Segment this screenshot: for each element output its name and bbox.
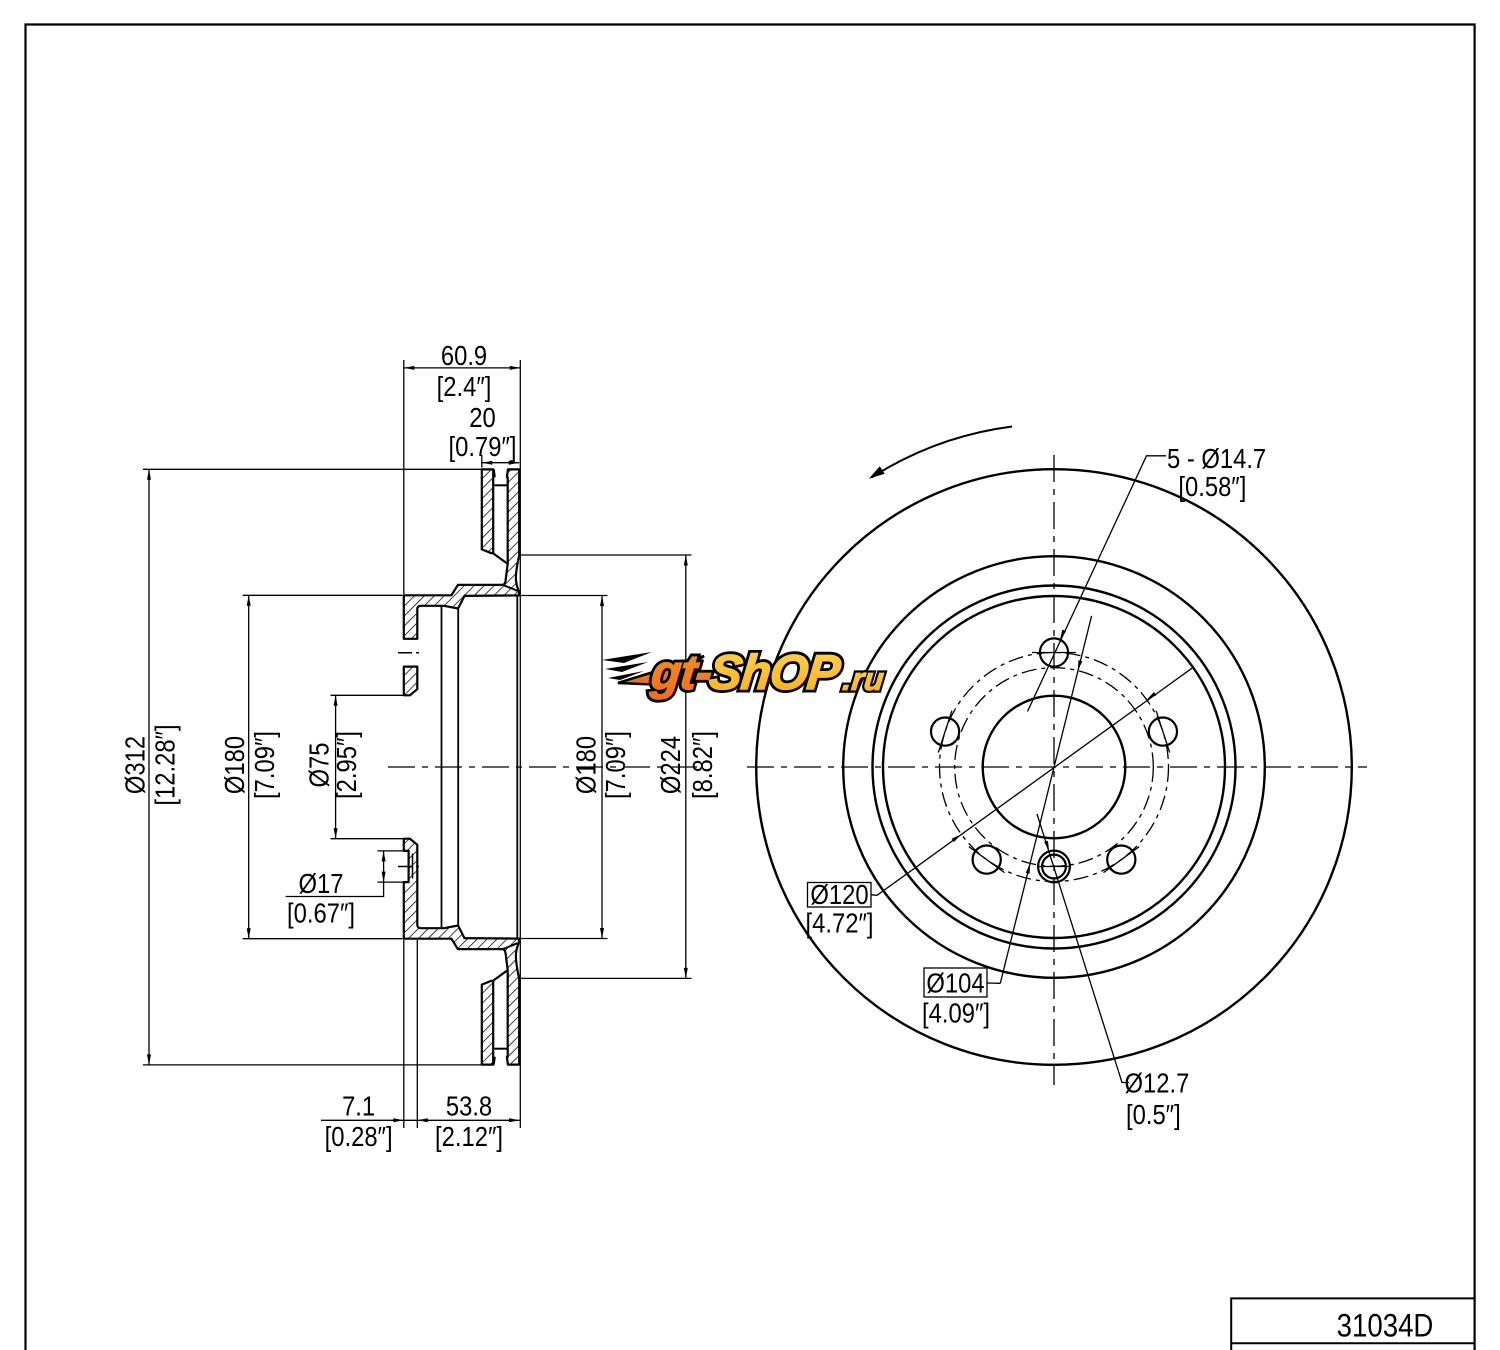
svg-text:.ru: .ru [841, 661, 886, 697]
pin hole counterbore inner edge (section) [412, 854, 414, 879]
front view friction surface inner circle Ø224 [843, 556, 1265, 978]
svg-text:[2.4″]: [2.4″] [437, 370, 492, 402]
dimension Ø75 [303, 695, 409, 838]
svg-text:53.8: 53.8 [446, 1090, 492, 1122]
vane edge line in vent slot (bottom) [494, 1048, 507, 1050]
svg-text:[0.58″]: [0.58″] [1178, 470, 1246, 502]
svg-text:gt-: gt- [648, 646, 714, 700]
front view vertical centerline [1053, 455, 1055, 1085]
rotation direction arrow [872, 427, 1013, 478]
vent slot bottom edge (top half) [493, 553, 508, 564]
front view center bore Ø75 [983, 696, 1126, 839]
hat fillet visible edge (bottom) [503, 943, 518, 949]
dimension Ø180 right [521, 596, 632, 939]
rotor cross-section body with hat and mounting plate (bottom half) [404, 839, 519, 1065]
bolt hole 4 (Ø14.7) [973, 846, 1001, 874]
svg-text:[4.72″]: [4.72″] [806, 907, 874, 939]
svg-text:[0.5″]: [0.5″] [1126, 1098, 1181, 1130]
svg-text:[0.28″]: [0.28″] [325, 1120, 393, 1152]
interior visible edge: hat corner rim [516, 596, 518, 938]
svg-text:ShOP: ShOP [707, 646, 843, 700]
svg-text:Ø180: Ø180 [570, 736, 602, 794]
dimension Ø180 left [218, 595, 402, 938]
bolt hole 3 (Ø14.7) [931, 718, 959, 746]
svg-text:[4.09″]: [4.09″] [922, 997, 990, 1029]
dimension Ø312 [119, 469, 481, 1065]
bolt circle Ø120 dash-dot [940, 653, 1169, 882]
svg-text:[12.28″]: [12.28″] [149, 724, 181, 805]
hat fillet visible edge (top) [503, 585, 518, 591]
locating pin hole Ø12.7 with counterbore [1038, 851, 1070, 883]
svg-text:[7.09″]: [7.09″] [248, 731, 280, 799]
svg-text:[8.82″]: [8.82″] [686, 731, 718, 799]
dimension Ø17 pin hole [286, 851, 404, 929]
gt-shop.ru watermark logo [602, 646, 888, 700]
svg-text:Ø180: Ø180 [218, 736, 250, 794]
rotor cross-section left plate (bottom half) [482, 981, 493, 1065]
interior visible edge: drum step 1 [441, 606, 443, 928]
dimensions 7.1 and 53.8 [321, 940, 520, 1152]
bolt hole axis (section) [398, 652, 423, 654]
svg-text:Ø12.7: Ø12.7 [1125, 1067, 1190, 1099]
svg-text:Ø312: Ø312 [119, 736, 151, 794]
svg-text:[7.09″]: [7.09″] [599, 731, 631, 799]
vent slot bottom edge (bottom half) [493, 970, 508, 981]
pin circle Ø104 dash-dot [955, 668, 1154, 867]
leader and label 5-Ø14.7 bolt holes [1028, 442, 1267, 711]
dimension Ø224 [521, 555, 719, 978]
svg-text:[2.12″]: [2.12″] [435, 1120, 503, 1152]
bolt hole 5 (Ø14.7) [1107, 846, 1135, 874]
svg-text:20: 20 [469, 401, 495, 433]
vent slot opening taper (bottom) [494, 1057, 495, 1065]
vane edge line in vent slot (top) [494, 484, 507, 486]
bolt hole 2 (Ø14.7) [1149, 718, 1177, 746]
front view hat step circle [873, 586, 1236, 949]
front view outer circle Ø312 [756, 469, 1352, 1065]
svg-text:7.1: 7.1 [342, 1090, 375, 1122]
front view drum circle Ø180 [883, 596, 1225, 938]
dimension 20 rotor thickness [449, 401, 520, 467]
rotor cross-section body with hat and mounting plate (top half) [404, 469, 519, 695]
svg-text:[0.67″]: [0.67″] [287, 897, 355, 929]
svg-text:Ø224: Ø224 [654, 736, 686, 794]
bolt hole 1 (Ø14.7) [1040, 638, 1068, 666]
vent slot opening taper (top) [494, 469, 495, 477]
section axis centerline [388, 766, 703, 768]
rotor cross-section left plate (top half) [482, 469, 493, 553]
svg-text:Ø104: Ø104 [926, 966, 984, 998]
svg-text:[0.79″]: [0.79″] [449, 430, 517, 462]
front view horizontal centerline [747, 766, 1367, 768]
svg-text:60.9: 60.9 [441, 339, 487, 371]
pin hole axis (section) [398, 866, 423, 868]
boxed label Ø120 with diameter line [806, 668, 1193, 939]
svg-text:[2.95″]: [2.95″] [330, 731, 362, 799]
svg-text:31034D: 31034D [1337, 1308, 1434, 1344]
interior visible edge: drum step 2 [457, 609, 459, 926]
svg-text:Ø17: Ø17 [299, 867, 344, 899]
title block [1231, 1298, 1474, 1350]
dimension 60.9 overall width [404, 339, 521, 1128]
boxed label Ø104 with diameter line [922, 616, 1092, 1029]
leader and label Ø12.7 pin hole [1037, 814, 1189, 1130]
